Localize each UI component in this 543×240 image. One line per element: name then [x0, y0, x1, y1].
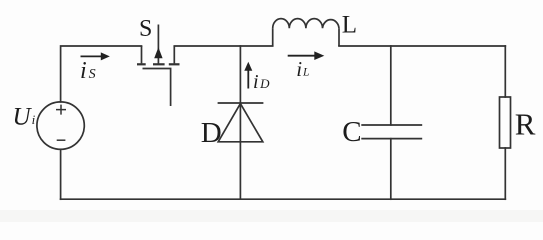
wire: bottom rail	[61, 198, 506, 200]
drain lead up	[173, 46, 175, 63]
source lead down	[141, 46, 143, 63]
gate channel line	[143, 69, 171, 107]
body terminal up line	[157, 25, 159, 51]
svg-text:D: D	[201, 117, 222, 149]
svg-text:C: C	[342, 116, 361, 148]
wire: diode branch vertical	[239, 46, 241, 199]
svg-text:R: R	[515, 107, 536, 142]
svg-text:S: S	[139, 16, 152, 42]
diode D	[218, 103, 264, 142]
wire: inductor to top-right corner	[339, 45, 505, 47]
resistor R	[500, 97, 511, 148]
cathode bar	[218, 102, 264, 104]
current arrow iL	[288, 51, 325, 60]
svg-text:L: L	[342, 12, 357, 39]
source bar	[137, 63, 146, 65]
wire: top-left from source to switch	[61, 46, 142, 102]
voltage source Ui	[37, 102, 84, 149]
body bar	[153, 63, 165, 65]
wire: source bottom to ground rail	[60, 149, 62, 199]
wire: right branch top (to resistor)	[504, 46, 506, 97]
inductor L	[273, 19, 339, 46]
current arrow iS	[81, 52, 110, 60]
anode triangle	[218, 104, 263, 142]
body arrow	[157, 56, 159, 64]
wire: switch drain to inductor	[174, 45, 272, 47]
wire: resistor bottom to rail	[504, 148, 506, 199]
footer gray band	[0, 210, 543, 222]
current arrow iD	[244, 62, 252, 89]
wire: capacitor branch top	[390, 46, 392, 125]
capacitor C	[361, 125, 422, 139]
MOSFET S	[137, 25, 180, 107]
wire: capacitor branch bottom	[390, 139, 392, 200]
drain bar	[169, 63, 180, 65]
